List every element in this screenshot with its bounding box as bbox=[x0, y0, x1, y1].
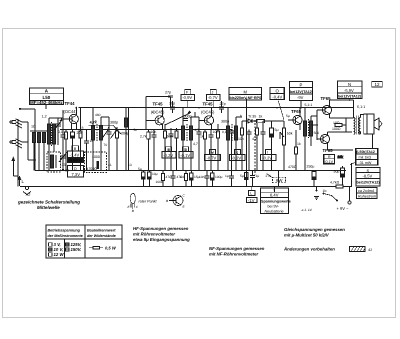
resistor 4,7k horizontal bbox=[330, 181, 343, 189]
G-STAGE2 bbox=[30, 88, 130, 171]
svg-text:0,5 W: 0,5 W bbox=[105, 246, 117, 251]
note HF measured bbox=[133, 226, 190, 242]
node dot2 bbox=[80, 129, 82, 131]
svg-text:bei12V(TA12): bei12V(TA12) bbox=[290, 90, 314, 94]
svg-text:ca 2x4mA: ca 2x4mA bbox=[358, 189, 375, 193]
svg-text:27p: 27p bbox=[220, 102, 226, 106]
transistor TF45 no1 bbox=[155, 116, 164, 125]
transistor TF65 upper bbox=[322, 105, 331, 114]
capacitor 27p top bbox=[165, 91, 173, 108]
meas box R small bbox=[324, 155, 335, 164]
svg-text:6,1:1: 6,1:1 bbox=[357, 105, 365, 109]
G-STAGE3 bbox=[140, 91, 202, 171]
switch left stubs bbox=[12, 121, 16, 144]
svg-text:a.1. 14: a.1. 14 bbox=[302, 208, 312, 212]
svg-text:Bauteilkennwert: Bauteilkennwert bbox=[87, 229, 116, 233]
svg-text:5μ: 5μ bbox=[275, 128, 279, 132]
variable capacitor C1 tuning bbox=[54, 118, 62, 135]
svg-text:-9V: -9V bbox=[297, 95, 304, 100]
svg-text:Spannungswerte: Spannungswerte bbox=[261, 199, 291, 203]
wire: mid rail bbox=[35, 170, 346, 172]
svg-text:12 W: 12 W bbox=[54, 252, 65, 257]
svg-text:460: 460 bbox=[95, 113, 101, 117]
resistor R12 between bbox=[335, 123, 346, 126]
switch contact S1b bbox=[16, 139, 22, 148]
svg-text:5μ: 5μ bbox=[286, 114, 290, 118]
svg-text:10μ: 10μ bbox=[152, 172, 158, 176]
box pointer stubs bbox=[169, 98, 350, 192]
note DC measured bbox=[284, 227, 345, 238]
svg-text:1Ω: 1Ω bbox=[31, 125, 36, 129]
svg-text:1k: 1k bbox=[259, 115, 263, 119]
wire TF45#2 leads bbox=[199, 108, 212, 130]
wire: left vertical bus bbox=[17, 119, 19, 187]
svg-text:4,7: 4,7 bbox=[252, 137, 257, 141]
alignment box A/L50 bbox=[30, 88, 64, 105]
svg-text:4,7: 4,7 bbox=[193, 142, 198, 146]
svg-text:-0,9V: -0,9V bbox=[182, 95, 192, 100]
wire R1 bbox=[65, 130, 67, 171]
svg-text:5μ: 5μ bbox=[240, 174, 244, 178]
svg-text:4700Ω: 4700Ω bbox=[87, 167, 98, 171]
svg-text:500: 500 bbox=[314, 131, 320, 135]
svg-text:Gleichspannungen gemessen: Gleichspannungen gemessen bbox=[284, 227, 345, 232]
wire transformer bbox=[354, 100, 364, 134]
resistor R6 bbox=[175, 131, 178, 138]
coupling elko pair bbox=[263, 121, 278, 171]
arrow M (wavechange) bbox=[12, 158, 18, 177]
battery terminal circle bbox=[348, 187, 351, 205]
junction dots bottom rail bbox=[65, 186, 350, 188]
hatch stamp bbox=[350, 247, 373, 253]
wire: bottom ground rail bbox=[20, 186, 352, 188]
wire M box drop bbox=[246, 99, 248, 187]
svg-text:Ruhestrom: Ruhestrom bbox=[358, 195, 376, 199]
dashed AGC filter box bbox=[85, 152, 107, 173]
svg-text:P: P bbox=[300, 83, 303, 88]
wire T4 bbox=[305, 108, 317, 171]
svg-text:(OC44): (OC44) bbox=[64, 109, 78, 114]
trimmer arrow 2 bbox=[111, 127, 118, 139]
svg-text:470Ω: 470Ω bbox=[288, 165, 297, 169]
meas box M bbox=[229, 88, 262, 101]
svg-text:1000: 1000 bbox=[92, 155, 100, 159]
G-BOXES bbox=[68, 81, 383, 214]
svg-text:-0,2V: -0,2V bbox=[231, 156, 241, 161]
svg-text:bei12V(TA12): bei12V(TA12) bbox=[338, 95, 362, 99]
wire R3 bbox=[116, 130, 118, 171]
svg-text:-5,9V: -5,9V bbox=[344, 88, 354, 93]
resistor R11 bbox=[294, 147, 297, 154]
svg-text:D: D bbox=[74, 167, 77, 171]
svg-text:+ 9V −: + 9V − bbox=[337, 206, 350, 211]
svg-text:a: a bbox=[152, 110, 154, 114]
wire: TF44 base/collector/emitter bbox=[63, 108, 76, 130]
meas box K bbox=[230, 150, 246, 161]
dashed shield line detector bbox=[254, 120, 256, 175]
resistor R2 emitter bbox=[79, 131, 82, 138]
svg-text:100μ: 100μ bbox=[215, 175, 223, 179]
junction dots top rail bbox=[92, 107, 354, 109]
resistor R9 bbox=[240, 128, 243, 135]
svg-text:13: 13 bbox=[62, 163, 66, 167]
capacitor C6 bbox=[152, 130, 157, 171]
svg-text:bei 9V-: bei 9V- bbox=[268, 204, 280, 208]
switch contact S1a bbox=[16, 119, 22, 128]
cap between rails 2 bbox=[199, 171, 210, 187]
emitter network stage4 bbox=[200, 124, 220, 170]
svg-text:1b: 1b bbox=[323, 189, 327, 193]
svg-text:5μ: 5μ bbox=[138, 167, 142, 171]
svg-text:0,1: 0,1 bbox=[180, 175, 185, 179]
elko 50u bbox=[334, 166, 345, 187]
svg-text:-0,2V: -0,2V bbox=[163, 153, 173, 158]
svg-text:-0,1V: -0,1V bbox=[324, 160, 333, 164]
IF transformer T3 bbox=[227, 124, 238, 142]
svg-text:10n: 10n bbox=[199, 175, 205, 179]
svg-text:b: b bbox=[95, 120, 97, 124]
svg-text:1k: 1k bbox=[297, 142, 301, 146]
wire push-pull bases bbox=[311, 110, 322, 140]
wire T3 bbox=[228, 108, 242, 171]
node: antenna input dot bbox=[19, 108, 21, 110]
earphone jack Tr2 bbox=[23, 186, 31, 197]
resistor R4 bbox=[147, 132, 150, 139]
transistor TF44 (OC44) bbox=[69, 114, 78, 123]
legend transistor symbol bbox=[166, 194, 186, 209]
svg-text:NF-Spannungen gemessen: NF-Spannungen gemessen bbox=[209, 246, 265, 251]
switch S2 bbox=[323, 189, 338, 201]
svg-text:-0,1V: -0,1V bbox=[180, 153, 190, 158]
wire: coil bottoms to ground bbox=[34, 143, 44, 171]
coil L3 inside bbox=[51, 155, 56, 168]
svg-text:0,1: 0,1 bbox=[58, 130, 63, 134]
wire bbox=[147, 130, 149, 171]
chassis symbol bbox=[314, 197, 319, 200]
meas box D bbox=[68, 166, 84, 178]
resistor R8 bbox=[216, 131, 219, 138]
resistor R10 bbox=[255, 128, 258, 135]
trimmer arrow 1 bbox=[102, 127, 109, 139]
svg-text:-0,4V: -0,4V bbox=[272, 95, 282, 100]
svg-text:50μ: 50μ bbox=[334, 170, 340, 174]
O box pointer diagonal bbox=[278, 100, 284, 120]
coil L4 bbox=[125, 108, 128, 171]
svg-text:5n: 5n bbox=[134, 128, 138, 132]
electrolytic C2 bbox=[71, 130, 75, 171]
detector RC cluster bbox=[229, 121, 266, 171]
output transformer T5 primary bbox=[354, 116, 361, 135]
svg-text:B: B bbox=[166, 199, 168, 203]
svg-text:HF-Spannungen gemessen: HF-Spannungen gemessen bbox=[133, 226, 189, 231]
transistor TF45 no2 bbox=[204, 116, 213, 125]
G-WIRES bbox=[18, 108, 354, 187]
svg-text:Änderungen vorbehalten: Änderungen vorbehalten bbox=[283, 247, 335, 252]
svg-text:5,1:1: 5,1:1 bbox=[305, 103, 313, 107]
meas box J bbox=[207, 90, 221, 101]
svg-text:mit 1kΩ: mit 1kΩ bbox=[359, 156, 372, 160]
arrow L (wavechange) bbox=[18, 177, 24, 187]
svg-text:12: 12 bbox=[375, 82, 381, 87]
elko 250u bbox=[312, 171, 316, 187]
svg-text:-0,7V: -0,7V bbox=[207, 156, 217, 161]
meas box N bbox=[338, 81, 363, 99]
ferrite antenna coil L1 bbox=[30, 130, 48, 142]
meas box I bbox=[261, 150, 277, 161]
emitter network R/C cluster bbox=[140, 124, 178, 170]
legend package outline bbox=[128, 193, 139, 213]
svg-text:mit Röhrenvoltmeter: mit Röhrenvoltmeter bbox=[133, 232, 175, 237]
between-rail components bbox=[138, 167, 271, 187]
svg-text:1μ: 1μ bbox=[256, 174, 260, 178]
junction dots mid rail bbox=[65, 170, 337, 172]
svg-text:300p: 300p bbox=[221, 120, 229, 124]
elko right pair bbox=[240, 171, 248, 187]
oscillator coil L2 with core bbox=[48, 122, 56, 146]
capacitor C11 bbox=[247, 130, 252, 171]
svg-text:250μ: 250μ bbox=[307, 165, 315, 169]
IF transformer T1 windings bbox=[92, 124, 103, 142]
capacitor C12 bbox=[261, 121, 266, 171]
wire AGC top link bbox=[146, 97, 171, 111]
wire: switch feeders bbox=[22, 122, 36, 160]
wire osc feedback bbox=[60, 124, 72, 130]
svg-text:Tr2: Tr2 bbox=[25, 193, 30, 197]
svg-text:10n: 10n bbox=[151, 130, 157, 134]
wire speaker down bbox=[372, 134, 374, 149]
meas box B with 800mV bbox=[68, 146, 84, 163]
capacitor 300p bbox=[183, 115, 192, 121]
shield can dashed L3 bbox=[47, 152, 61, 172]
meas box G bbox=[179, 147, 193, 158]
svg-text:-0,7V: -0,7V bbox=[208, 95, 218, 100]
svg-text:M: M bbox=[244, 89, 248, 94]
svg-text:1μ: 1μ bbox=[225, 174, 229, 178]
svg-text:der Widerstände: der Widerstände bbox=[87, 234, 116, 238]
meas box O bbox=[270, 88, 284, 100]
svg-text:(OC45): (OC45) bbox=[201, 110, 215, 115]
resistor R1 base bias bbox=[64, 132, 67, 139]
table body symbols col1 bbox=[49, 242, 82, 257]
svg-text:300p: 300p bbox=[184, 115, 192, 119]
capacitor C8 bbox=[197, 117, 202, 171]
meas box L small bbox=[246, 191, 257, 203]
wire: osc section bbox=[49, 118, 63, 170]
wire gang link bbox=[89, 125, 122, 134]
resistor R5 bbox=[163, 131, 166, 138]
svg-text:bis220mV-NF·RPS: bis220mV-NF·RPS bbox=[230, 96, 263, 100]
cap between rails 3 bbox=[229, 171, 234, 187]
svg-text:Neubatterie: Neubatterie bbox=[265, 209, 284, 213]
svg-text:9W: 9W bbox=[276, 178, 283, 183]
svg-text:-1V: -1V bbox=[248, 198, 255, 203]
svg-text:Betriebsspannung: Betriebsspannung bbox=[48, 229, 81, 233]
svg-text:41: 41 bbox=[108, 163, 112, 167]
transistor TF65 driver bbox=[293, 115, 302, 124]
wire: AGC line bbox=[60, 129, 232, 131]
page number box 12 bbox=[372, 82, 383, 88]
wire mid tap bbox=[345, 118, 347, 132]
antenna terminals bbox=[10, 121, 12, 143]
svg-text:gezeichnete Schalterstellung: gezeichnete Schalterstellung bbox=[17, 200, 80, 205]
meas box Ruhestrom bbox=[357, 188, 378, 199]
transistor TF65 lower bbox=[320, 134, 329, 143]
svg-text:41: 41 bbox=[368, 248, 372, 252]
svg-text:13: 13 bbox=[128, 163, 132, 167]
cap between rails 1 bbox=[171, 171, 184, 187]
node dot TF44 collector bbox=[76, 107, 78, 109]
svg-text:N: N bbox=[348, 82, 351, 87]
resistor R3 bbox=[115, 131, 118, 138]
speaker bbox=[364, 114, 382, 134]
capacitor C5 0,1 bbox=[61, 130, 66, 171]
legend table bbox=[46, 225, 122, 258]
node dot 3n bbox=[62, 169, 64, 171]
svg-text:-1,4V: -1,4V bbox=[70, 152, 80, 157]
wire battery branch bbox=[316, 187, 318, 198]
svg-text:13: 13 bbox=[90, 139, 94, 143]
wire TF45#1 leads bbox=[146, 108, 162, 130]
svg-text:roter Punkt: roter Punkt bbox=[139, 200, 158, 204]
svg-text:Mittelwelle: Mittelwelle bbox=[37, 205, 60, 210]
volume potentiometer 50k bbox=[280, 121, 293, 171]
G-STAGE1 bbox=[12, 108, 69, 197]
extra small labels bbox=[95, 110, 290, 167]
svg-text:etwa 5μ Eingangsspannung: etwa 5μ Eingangsspannung bbox=[133, 237, 190, 242]
svg-text:mit NF-Röhrenvoltmeter: mit NF-Röhrenvoltmeter bbox=[209, 252, 259, 257]
svg-text:150V.: 150V. bbox=[71, 247, 82, 252]
IF transformer T2 bbox=[182, 124, 193, 142]
wire: second left vertical bbox=[34, 109, 36, 171]
wire S box drop bbox=[350, 163, 352, 187]
meas box E bbox=[162, 147, 176, 158]
wire: box pointer bbox=[45, 105, 47, 109]
svg-text:Tr.35: Tr.35 bbox=[248, 115, 256, 119]
svg-text:300p: 300p bbox=[110, 121, 118, 125]
meas box T big bbox=[261, 188, 291, 214]
svg-text:10n: 10n bbox=[238, 137, 244, 141]
wire NTC bbox=[278, 171, 280, 187]
capacitor C9 bbox=[209, 130, 214, 171]
svg-text:der Meßinstrumente: der Meßinstrumente bbox=[48, 234, 83, 238]
svg-text:TF44: TF44 bbox=[65, 101, 76, 106]
resistor between rails 2 bbox=[180, 171, 188, 187]
svg-text:b: b bbox=[240, 114, 242, 118]
capacitor C10 bbox=[229, 130, 234, 171]
svg-text:10k: 10k bbox=[338, 155, 344, 159]
meas box S bbox=[356, 167, 380, 186]
svg-text:a: a bbox=[82, 126, 84, 130]
G-STAGE4 bbox=[199, 99, 278, 187]
wire long vertical bbox=[128, 108, 130, 171]
svg-text:TF45: TF45 bbox=[203, 102, 214, 107]
svg-text:-31 mW: -31 mW bbox=[359, 161, 372, 165]
neutralizing cap 30p bbox=[170, 101, 175, 113]
node dot bases bbox=[316, 124, 318, 126]
elko 100u bbox=[211, 171, 223, 187]
svg-text:bei12V(TA12): bei12V(TA12) bbox=[357, 181, 381, 185]
wire: left antenna top bbox=[20, 108, 35, 110]
wire collectors bbox=[328, 100, 354, 150]
svg-text:MF=452·468kHz: MF=452·468kHz bbox=[30, 100, 63, 105]
resistor R7 bbox=[203, 132, 206, 139]
svg-text:7,3V: 7,3V bbox=[72, 172, 81, 177]
resistor between rails 1 bbox=[161, 171, 172, 187]
svg-text:800mV: 800mV bbox=[69, 158, 83, 163]
svg-text:5,6k: 5,6k bbox=[167, 135, 174, 139]
wire R2 bbox=[80, 108, 82, 171]
svg-text:10n: 10n bbox=[213, 130, 219, 134]
wire T2 bbox=[183, 108, 199, 171]
G-STAGE6 bbox=[302, 96, 383, 212]
svg-text:6,4V: 6,4V bbox=[270, 193, 279, 198]
svg-text:27p: 27p bbox=[165, 91, 171, 95]
svg-text:mit μ-Multizet 50 kΩ/V: mit μ-Multizet 50 kΩ/V bbox=[284, 233, 330, 238]
elko pair left bbox=[138, 167, 145, 187]
svg-text:270: 270 bbox=[266, 174, 272, 178]
trimmer diagonal arrow bbox=[165, 111, 191, 125]
svg-text:-0,2V: -0,2V bbox=[262, 156, 272, 161]
wire: top supply rail bbox=[79, 107, 355, 109]
elko 10u bbox=[148, 171, 158, 187]
node dot bbox=[71, 129, 73, 131]
trimmer cap left bbox=[59, 150, 67, 166]
wire T1 bbox=[93, 108, 109, 171]
cap between rails 4 bbox=[250, 171, 271, 187]
table body right resistor symbol bbox=[89, 246, 117, 251]
small box 9W bbox=[267, 174, 286, 183]
meas box F bbox=[181, 90, 195, 101]
svg-text:50k: 50k bbox=[287, 132, 293, 136]
wire TF65 driver leads bbox=[288, 108, 300, 130]
capacitor C3 bbox=[84, 130, 89, 171]
svg-text:0,1: 0,1 bbox=[222, 130, 227, 134]
resistor horizontal det load bbox=[257, 119, 271, 122]
svg-text:L: L bbox=[250, 192, 252, 196]
capacitor C7 bbox=[169, 128, 174, 171]
G-STAGE5 bbox=[272, 108, 320, 187]
note NF measured bbox=[209, 246, 265, 257]
driver transformer T4 bbox=[304, 119, 313, 138]
diode detector bbox=[242, 119, 258, 123]
switch contact dots bbox=[15, 118, 16, 145]
svg-text:200p: 200p bbox=[121, 132, 129, 136]
meas box H bbox=[205, 150, 221, 161]
G-BOTTOM bbox=[17, 193, 372, 258]
capacitor 27p#2 bbox=[219, 101, 224, 113]
meas box P bbox=[290, 81, 314, 100]
svg-text:(L50k)TA12: (L50k)TA12 bbox=[356, 150, 375, 154]
svg-text:70: 70 bbox=[104, 143, 108, 147]
svg-text:TF45: TF45 bbox=[153, 102, 164, 107]
svg-text:B: B bbox=[132, 209, 134, 213]
svg-text:-8,5V: -8,5V bbox=[363, 174, 373, 179]
svg-text:1,2: 1,2 bbox=[42, 115, 47, 119]
svg-text:4,7kΩ: 4,7kΩ bbox=[330, 181, 340, 185]
elko 15u bbox=[190, 171, 200, 187]
svg-text:4,7: 4,7 bbox=[195, 128, 200, 132]
wire bbox=[164, 124, 166, 170]
wire pot top bbox=[272, 120, 285, 122]
capacitor C4 300p bbox=[107, 117, 112, 171]
node dot bbox=[316, 190, 318, 192]
svg-text:2,7k: 2,7k bbox=[140, 135, 147, 139]
svg-text:100Ω: 100Ω bbox=[332, 127, 341, 131]
svg-text:1k: 1k bbox=[200, 135, 204, 139]
meas box R output bbox=[350, 149, 378, 166]
